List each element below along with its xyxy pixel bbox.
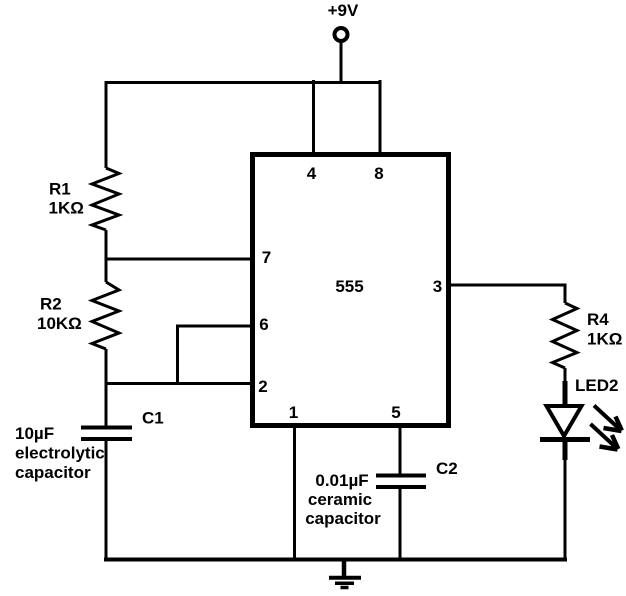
capacitor C1 bottom plate	[81, 437, 132, 441]
svg-text:1KΩ: 1KΩ	[49, 199, 84, 218]
wire pin 5 to C2	[399, 427, 402, 476]
wire pin 8 drop	[379, 80, 382, 153]
diode LED2 anode lead	[563, 381, 568, 407]
resistor R2	[92, 282, 119, 349]
svg-text:capacitor: capacitor	[305, 509, 381, 528]
wire node pin2 to C1	[105, 384, 108, 428]
capacitor C2 top plate	[376, 474, 426, 478]
svg-text:555: 555	[335, 277, 363, 296]
wire LED2 to ground rail	[564, 458, 567, 561]
svg-text:LED2: LED2	[575, 376, 618, 395]
svg-text:capacitor: capacitor	[15, 463, 91, 482]
wire pin 6	[178, 326, 254, 385]
diode LED2 cathode lead	[563, 439, 568, 460]
svg-text:electrolytic: electrolytic	[15, 444, 105, 463]
wire node pin7 to R2	[105, 259, 108, 282]
ground bar 1	[329, 576, 361, 580]
wire R1 to node pin7	[105, 230, 108, 260]
svg-text:3: 3	[433, 277, 442, 296]
svg-text:10KΩ: 10KΩ	[37, 314, 82, 333]
ground bar 3	[341, 586, 349, 590]
svg-text:+9V: +9V	[328, 1, 359, 20]
capacitor C2 bottom plate	[376, 485, 426, 489]
svg-text:7: 7	[262, 248, 271, 267]
diode LED2 triangle	[547, 406, 582, 436]
wire R2 to node pin2	[105, 349, 108, 385]
wire pin 7	[105, 258, 254, 261]
svg-text:R1: R1	[49, 180, 71, 199]
svg-text:1KΩ: 1KΩ	[587, 330, 622, 349]
svg-text:6: 6	[259, 315, 268, 334]
resistor R4	[553, 303, 578, 368]
svg-text:ceramic: ceramic	[308, 490, 372, 509]
ground bar 2	[335, 582, 354, 586]
wire pin 1 to ground rail	[293, 427, 296, 561]
ic 555 U1	[253, 155, 449, 426]
wire pin 4 drop	[312, 80, 315, 153]
wire C1 to ground rail	[105, 439, 108, 561]
+9V supply terminal	[335, 28, 348, 41]
svg-text:5: 5	[391, 403, 400, 422]
wire pin 3 to R4	[451, 285, 565, 303]
wire pin 2	[105, 382, 254, 385]
svg-text:4: 4	[307, 164, 317, 183]
wire top rail	[106, 83, 382, 85]
capacitor C1 top plate	[81, 426, 132, 430]
svg-text:C1: C1	[142, 409, 164, 428]
wire left rail to R1	[105, 82, 108, 168]
svg-text:2: 2	[258, 377, 267, 396]
LED2 emission arrow 1	[594, 406, 622, 432]
wire R4 to LED2	[564, 368, 567, 383]
LED2 emission arrow 2	[591, 424, 619, 450]
svg-text:R4: R4	[587, 310, 609, 329]
svg-text:8: 8	[374, 164, 383, 183]
svg-text:C2: C2	[436, 459, 458, 478]
svg-text:0.01µF: 0.01µF	[315, 471, 368, 490]
resistor R1	[92, 168, 119, 230]
wire C2 to ground rail	[399, 487, 402, 561]
ground stub	[342, 558, 347, 577]
svg-text:10µF: 10µF	[15, 424, 54, 443]
wire ground rail	[104, 558, 567, 562]
svg-text:R2: R2	[40, 295, 62, 314]
wire +9V terminal to top rail	[340, 41, 343, 84]
diode LED2 cathode bar	[540, 437, 590, 442]
svg-text:1: 1	[289, 403, 298, 422]
